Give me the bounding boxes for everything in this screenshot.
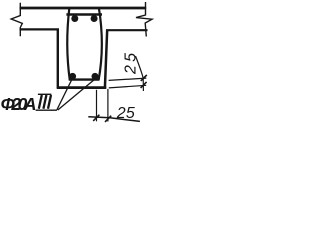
vertical dimension line bbox=[136, 56, 144, 91]
web left edge bbox=[57, 29, 59, 89]
rebar dot top-right bbox=[91, 15, 98, 22]
svg-text:Φ20A: Φ20A bbox=[1, 94, 37, 114]
numeral III top bar bbox=[38, 93, 52, 95]
stirrup top bar bbox=[66, 13, 102, 15]
rebar dot bottom-right bbox=[92, 73, 99, 80]
stirrup bottom bar bbox=[69, 78, 100, 80]
slab bottom edge right segment bbox=[106, 29, 148, 31]
break line right bbox=[136, 2, 152, 37]
tick upper on vertical dimension bbox=[141, 75, 147, 81]
stirrup right leg bbox=[99, 8, 102, 81]
svg-text:25: 25 bbox=[116, 105, 135, 122]
numeral III stroke 2 bbox=[43, 95, 46, 109]
break line left bbox=[11, 3, 22, 36]
numeral III stroke 1 bbox=[39, 95, 42, 109]
rebar dot top-left bbox=[71, 15, 78, 22]
slab top edge bbox=[20, 7, 147, 10]
numeral III stroke 3 bbox=[48, 95, 51, 109]
tick right on bottom dimension bbox=[105, 116, 111, 122]
web bottom edge bbox=[57, 86, 106, 89]
extension line upper (bottom rebar level) bbox=[109, 78, 147, 80]
extension line lower (web soffit level) bbox=[109, 85, 146, 88]
extension line left (bottom rebar axis) bbox=[96, 90, 98, 122]
rebar dot bottom-left bbox=[69, 73, 76, 80]
label underline bbox=[36, 109, 57, 111]
slab bottom edge left segment bbox=[20, 28, 60, 30]
leader from bottom-right rebar bbox=[58, 80, 95, 110]
tick left on bottom dimension bbox=[93, 115, 99, 121]
leader from bottom-left rebar bbox=[57, 80, 72, 110]
bottom dimension line bbox=[88, 117, 140, 122]
stirrup left leg bbox=[67, 8, 70, 81]
web right edge bbox=[105, 30, 107, 89]
extension line right (web face) bbox=[107, 89, 109, 122]
tick lower on vertical dimension bbox=[141, 82, 147, 88]
